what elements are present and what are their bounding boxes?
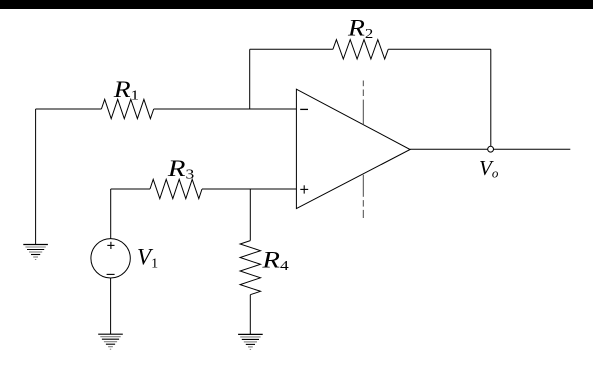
resistor R1 (101, 99, 153, 118)
op-amp minus pin mark (300, 108, 308, 110)
wire: R1 to op-amp minus input (154, 108, 297, 110)
ground (under R4) (238, 334, 263, 349)
voltage source V1 (91, 239, 130, 278)
wire: feedback top horizontal, left part (250, 48, 333, 50)
op-amp plus pin mark (300, 185, 308, 193)
wire: feedback right vertical down to output node (490, 49, 492, 149)
op-amp U1 (296, 89, 410, 208)
top black banner (0, 0, 593, 9)
dashed axis line through op-amp (362, 81, 364, 219)
wire: V1 top lead (110, 189, 112, 239)
resistor R4 (240, 241, 260, 295)
wire: R4 bottom lead (249, 295, 251, 335)
wire: R4 top lead (249, 189, 251, 241)
wire: V1 bottom lead (110, 278, 112, 334)
node Vo terminal circle (488, 146, 494, 152)
wire: feedback top horizontal, right part (388, 48, 491, 50)
wire: R3 to op-amp plus input (202, 188, 296, 190)
ground (left) (23, 245, 48, 260)
resistor R2 (333, 40, 388, 59)
resistor R3 (150, 179, 202, 198)
wire: feedback tap vertical at x=249.7 (249, 49, 251, 109)
wire: left vertical down to ground (35, 109, 37, 244)
wire: R1 input line from left corner to op-amp inverting input (36, 108, 102, 110)
wire: R3 input line from V1 top corner (111, 188, 150, 190)
ground (under V1) (98, 334, 123, 349)
wire: output line (410, 148, 570, 150)
